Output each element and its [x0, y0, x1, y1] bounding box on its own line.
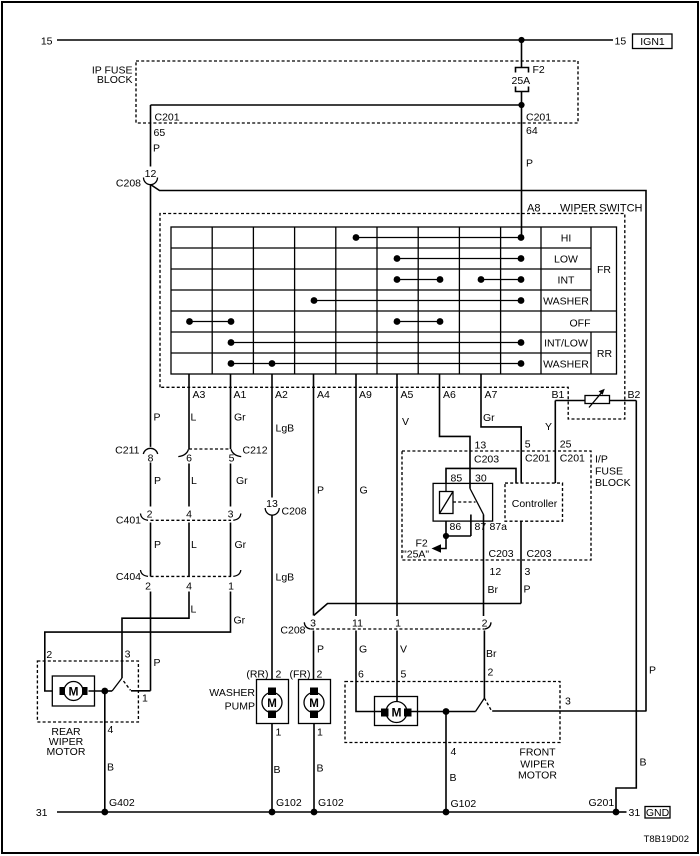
svg-text:Br: Br	[486, 648, 497, 660]
svg-text:A3: A3	[193, 389, 206, 401]
switch pin labels A3 A1 A2 A4 A9 A5 A6 A7	[193, 389, 498, 401]
svg-text:15: 15	[41, 36, 53, 48]
switch contacts row WASHER FR: A4 to A8	[311, 297, 525, 304]
fuse F2 25A	[512, 40, 545, 105]
svg-text:G102: G102	[276, 797, 302, 809]
svg-text:P: P	[526, 158, 533, 170]
svg-text:B1: B1	[552, 389, 565, 401]
svg-text:IGN1: IGN1	[640, 36, 665, 48]
wire B2 down right side	[616, 401, 647, 813]
svg-text:L: L	[191, 539, 197, 551]
connector C201 pin 65	[151, 105, 180, 167]
svg-text:2: 2	[145, 581, 151, 593]
svg-text:Br: Br	[488, 584, 499, 596]
svg-text:G102: G102	[318, 797, 344, 809]
wire P branch from C208-12 to right side	[151, 185, 657, 712]
svg-text:P: P	[154, 539, 161, 551]
ground G201	[589, 797, 620, 815]
wire P controller to C203-3 and C208-3	[314, 521, 552, 615]
wire P C211 to C401	[151, 463, 162, 507]
wire P C401 to C404	[151, 523, 162, 577]
svg-text:12: 12	[490, 566, 502, 578]
wire L C404 to rear wiper switch pin 3	[122, 592, 197, 679]
svg-text:2: 2	[482, 618, 488, 630]
svg-text:FRONT: FRONT	[519, 747, 556, 759]
svg-text:C201: C201	[560, 453, 585, 465]
svg-text:GND: GND	[646, 807, 670, 819]
svg-text:RR: RR	[597, 348, 613, 360]
svg-text:11: 11	[352, 618, 363, 630]
svg-text:LgB: LgB	[276, 423, 295, 435]
wire A2 LgB from switch to C208-13	[272, 374, 294, 498]
wire B front motor pin 4 to G102	[446, 712, 457, 813]
node junction front motor pin 4	[443, 708, 450, 715]
svg-text:15: 15	[615, 36, 627, 48]
svg-text:4: 4	[186, 581, 192, 593]
svg-text:C401: C401	[116, 515, 141, 527]
svg-text:C201: C201	[525, 453, 550, 465]
front wiper motor dashed box	[345, 682, 560, 782]
svg-text:WASHER: WASHER	[543, 359, 589, 371]
wire A6 to relay pin 30	[440, 374, 471, 483]
wiper switch contact table grid	[171, 227, 617, 374]
svg-text:1: 1	[395, 618, 401, 630]
node junction on 15 bus	[518, 37, 524, 43]
switch contacts row OFF: A3-A1 and A5-A6	[186, 318, 443, 325]
svg-text:P: P	[524, 584, 531, 596]
svg-text:A7: A7	[485, 389, 498, 401]
connector C208 pin 12	[116, 168, 158, 190]
switch contacts row LOW: A5 to A8	[394, 255, 525, 262]
switch contacts row INT: A5-A6 and A7-A8	[394, 276, 525, 283]
switch contacts row INT/LOW: A1 to A8	[228, 339, 525, 346]
wiper switch dashed box	[160, 203, 643, 420]
svg-text:BLOCK: BLOCK	[97, 74, 133, 86]
svg-text:C201: C201	[526, 112, 551, 124]
svg-text:B: B	[107, 762, 114, 774]
svg-text:86: 86	[450, 521, 462, 533]
terminal GND	[645, 807, 670, 820]
IP fuse block (dashed box)	[92, 61, 578, 123]
svg-text:30: 30	[475, 473, 487, 485]
svg-text:T8B19D02: T8B19D02	[644, 834, 689, 845]
svg-text:A8: A8	[527, 203, 540, 215]
svg-text:L: L	[191, 604, 197, 616]
svg-text:3: 3	[228, 508, 234, 520]
connector C201 pin 25	[560, 439, 585, 465]
svg-text:5: 5	[401, 669, 407, 681]
svg-text:P: P	[154, 412, 161, 424]
svg-text:13: 13	[475, 440, 487, 452]
svg-text:64: 64	[526, 125, 538, 137]
svg-text:B: B	[274, 764, 281, 776]
connector C208 (pins 3 11 1 2)	[280, 618, 491, 637]
svg-text:M: M	[267, 698, 277, 710]
wire L A3 from switch to C212-6	[189, 374, 197, 449]
svg-text:Y: Y	[545, 421, 552, 433]
svg-text:2: 2	[488, 667, 494, 679]
wire relay 85 to controller	[446, 468, 516, 483]
svg-text:65: 65	[154, 127, 166, 139]
svg-text:13: 13	[266, 498, 278, 510]
front wiper motor M	[375, 697, 447, 726]
svg-text:2: 2	[276, 669, 282, 681]
wire LgB C208-13 to RR washer pump	[272, 516, 294, 680]
svg-text:3: 3	[525, 566, 531, 578]
svg-text:M: M	[309, 698, 319, 710]
svg-text:B: B	[317, 763, 324, 775]
svg-text:P: P	[317, 485, 324, 497]
variable resistor B1-B2	[552, 389, 641, 408]
wire Gr C404 to rear wiper motor pin 2	[45, 592, 246, 692]
svg-text:Gr: Gr	[236, 475, 248, 487]
svg-text:87a: 87a	[490, 521, 508, 533]
node junction rear motor pin 4	[101, 688, 108, 695]
svg-text:V: V	[400, 644, 407, 656]
connector C401 (pins 2 4 3)	[116, 508, 241, 526]
svg-text:L: L	[191, 475, 197, 487]
svg-text:C211: C211	[115, 445, 139, 457]
wire B rear motor pin 4 to G402	[105, 691, 114, 812]
svg-text:FR: FR	[597, 264, 611, 276]
wire P C208-3 to FR washer pump	[314, 631, 325, 680]
wire Gr C401 to C404	[231, 523, 247, 577]
svg-text:BLOCK: BLOCK	[595, 477, 631, 489]
svg-text:M: M	[69, 685, 79, 699]
svg-text:A2: A2	[275, 389, 288, 401]
wire A4 P from switch to C208-3	[314, 374, 325, 616]
svg-text:MOTOR: MOTOR	[47, 746, 86, 758]
svg-text:2: 2	[147, 508, 153, 520]
svg-text:M: M	[392, 706, 402, 720]
svg-text:85: 85	[451, 473, 463, 485]
svg-text:LgB: LgB	[276, 572, 295, 584]
svg-text:1: 1	[276, 727, 282, 739]
svg-text:12: 12	[145, 168, 157, 180]
svg-text:B2: B2	[628, 389, 641, 401]
svg-text:A5: A5	[401, 389, 414, 401]
wire Br relay 87a to C203-12	[484, 515, 514, 617]
svg-text:C203: C203	[474, 454, 499, 466]
svg-text:C208: C208	[116, 178, 141, 190]
svg-text:P: P	[649, 665, 656, 677]
svg-text:F2: F2	[533, 64, 545, 76]
svg-text:"25A": "25A"	[403, 549, 429, 561]
connector C404 (pins 2 4 1)	[116, 570, 241, 593]
rear wiper park switch	[105, 649, 151, 705]
svg-text:INT: INT	[558, 275, 576, 287]
svg-text:4: 4	[451, 746, 457, 758]
svg-text:A6: A6	[443, 389, 456, 401]
svg-text:L: L	[191, 412, 197, 424]
I/P fuse block dashed box	[402, 451, 631, 560]
wire B FR pump to G102	[314, 724, 324, 813]
ground G102 FR pump	[311, 797, 344, 815]
svg-text:Gr: Gr	[235, 539, 247, 551]
switch contacts row WASHER RR: A1 A2 A8	[228, 360, 525, 367]
svg-text:P: P	[317, 644, 324, 656]
svg-text:C208: C208	[280, 625, 305, 637]
svg-text:31: 31	[36, 807, 48, 819]
svg-text:G: G	[359, 644, 367, 656]
wire P rear feed down left side	[151, 185, 161, 447]
washer pump RR motor	[209, 669, 288, 724]
svg-text:31: 31	[629, 807, 641, 819]
svg-text:B: B	[450, 772, 457, 784]
connector C208 pin 13	[265, 498, 307, 518]
svg-text:C203: C203	[527, 548, 552, 560]
wire Gr C212 to C401	[231, 464, 249, 507]
svg-text:C203: C203	[489, 548, 514, 560]
ground bus 31	[36, 807, 641, 819]
svg-text:V: V	[402, 416, 409, 428]
svg-text:A4: A4	[317, 389, 330, 401]
svg-text:Gr: Gr	[234, 412, 246, 424]
svg-text:6: 6	[358, 669, 364, 681]
rear wiper motor M	[46, 649, 104, 706]
svg-text:2: 2	[46, 649, 52, 661]
svg-text:4: 4	[186, 508, 192, 520]
svg-text:G402: G402	[109, 797, 135, 809]
svg-text:P: P	[154, 475, 161, 487]
connector C201 pin 64	[526, 112, 551, 170]
wire A7 Gr to controller	[481, 374, 521, 483]
wiper switch row labels	[543, 233, 612, 371]
svg-text:I/P: I/P	[595, 454, 608, 466]
svg-text:WASHER: WASHER	[209, 687, 255, 699]
connector C211 pin 8	[115, 445, 158, 465]
wire A5 V from switch to C208-1	[397, 374, 409, 616]
wire relay 86-87 to fuse F2 arrow	[403, 521, 471, 560]
svg-text:HI: HI	[561, 233, 572, 245]
ground G102 RR pump	[269, 797, 302, 815]
relay K wiper	[433, 473, 507, 534]
svg-text:Gr: Gr	[483, 412, 495, 424]
svg-text:A1: A1	[234, 389, 247, 401]
front wiper park switch	[446, 696, 646, 712]
svg-text:(FR): (FR)	[290, 669, 311, 681]
ground G402	[101, 797, 134, 815]
svg-text:G: G	[360, 485, 368, 497]
wire A9 G from switch to C208-11	[356, 374, 368, 616]
svg-text:INT/LOW: INT/LOW	[544, 338, 588, 350]
wire L C212 to C401	[189, 464, 197, 507]
svg-text:25A: 25A	[512, 75, 531, 87]
washer pump FR motor	[290, 669, 331, 724]
svg-text:3: 3	[125, 649, 131, 661]
svg-text:5: 5	[229, 453, 235, 465]
svg-text:FUSE: FUSE	[595, 466, 623, 478]
svg-text:MOTOR: MOTOR	[518, 770, 557, 782]
svg-text:1: 1	[142, 693, 148, 705]
wire Gr A1 from switch to C212-5	[231, 374, 247, 449]
wire Y B1 to controller	[545, 401, 555, 484]
svg-text:LOW: LOW	[554, 254, 578, 266]
svg-text:1: 1	[228, 581, 234, 593]
connector C201 pin 5	[525, 439, 550, 465]
svg-text:C201: C201	[155, 112, 180, 124]
svg-text:Controller: Controller	[512, 498, 558, 510]
svg-text:A9: A9	[359, 389, 372, 401]
wire A8 P from fuse to wiper switch	[521, 105, 523, 238]
svg-text:2: 2	[317, 669, 323, 681]
svg-text:3: 3	[565, 696, 571, 708]
node junction below fuse	[518, 102, 524, 108]
wire P bus to C201-65	[151, 104, 522, 106]
svg-text:6: 6	[186, 453, 192, 465]
wire B RR pump to G102	[272, 724, 282, 813]
svg-text:PUMP: PUMP	[225, 701, 255, 713]
wire G C208-11 to front wiper motor pin 6	[356, 631, 382, 712]
svg-text:C212: C212	[243, 445, 268, 457]
svg-text:WASHER: WASHER	[543, 296, 589, 308]
wire Br C208-2 to front wiper switch pin 2	[484, 631, 497, 699]
rear wiper motor dashed box	[37, 661, 138, 758]
svg-text:C208: C208	[282, 506, 307, 518]
switch contacts row HI: A9 to A8	[353, 234, 525, 241]
svg-text:P: P	[154, 657, 161, 669]
wire V C208-1 to front wiper motor pin 5	[397, 631, 407, 702]
svg-text:P: P	[153, 143, 160, 155]
svg-text:OFF: OFF	[570, 318, 591, 330]
connector C203 pin 13	[474, 440, 499, 466]
svg-text:Gr: Gr	[234, 615, 246, 627]
svg-text:25: 25	[560, 439, 572, 451]
svg-text:G201: G201	[589, 797, 615, 809]
terminal IGN1	[633, 34, 673, 49]
svg-text:G102: G102	[451, 798, 477, 810]
wire 15 ignition feed bus	[41, 36, 627, 48]
connector C212 (pins 6 5)	[178, 445, 267, 465]
svg-text:1: 1	[317, 727, 323, 739]
svg-text:C404: C404	[116, 571, 141, 583]
wire L C401 to C404	[189, 523, 197, 577]
svg-text:WIPER SWITCH: WIPER SWITCH	[560, 203, 643, 215]
wire P C404 to rear wiper switch pin 1	[151, 592, 161, 691]
ground G102 front motor	[443, 798, 477, 815]
svg-text:4: 4	[108, 724, 114, 736]
controller (dashed box)	[505, 483, 563, 521]
svg-text:87: 87	[475, 521, 487, 533]
svg-text:(RR): (RR)	[246, 669, 268, 681]
svg-text:B: B	[640, 757, 647, 769]
svg-text:3: 3	[310, 618, 316, 630]
svg-text:5: 5	[525, 439, 531, 451]
